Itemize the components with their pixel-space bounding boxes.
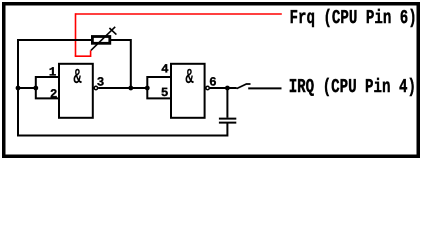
wire: gate 1 output (pin 3) to gate 2 inputs <box>98 87 147 89</box>
junction: gate1 input connector <box>33 86 38 91</box>
junction: gate2 input connector <box>145 86 150 91</box>
wire: red Frq net horizontal top segment <box>76 13 282 15</box>
svg-text:6: 6 <box>209 75 217 89</box>
wire: red Frq net bottom horizontal segment <box>75 55 91 57</box>
wire: left vertical feedback bus <box>17 39 19 137</box>
wire: output node down to capacitor C1 <box>226 87 228 118</box>
wire: left bus link to gate 1 inputs <box>17 87 36 89</box>
inverter bubble U1b output <box>206 86 209 89</box>
variable resistor R1 (trimmer) <box>91 27 116 51</box>
NAND gate U1a <box>59 64 93 118</box>
wire: vertical from resistor lead down to gate output node <box>130 39 132 88</box>
wire: switch to IRQ label <box>248 87 281 89</box>
svg-text:IRQ (CPU Pin 4): IRQ (CPU Pin 4) <box>289 76 416 98</box>
svg-text:1: 1 <box>49 66 57 80</box>
svg-text:Frq (CPU Pin 6): Frq (CPU Pin 6) <box>290 7 417 29</box>
wire: gate 2 output (pin 6) to switch <box>210 87 237 89</box>
svg-text:&: & <box>185 66 193 90</box>
wire: red Frq net vertical segment <box>75 13 77 56</box>
wire: gate 1 input connector joining pin 1 and pin 2 <box>36 77 59 98</box>
svg-text:4: 4 <box>161 63 169 77</box>
wire: resistor R1 right lead horizontal <box>111 39 131 41</box>
junction: capacitor / switch node <box>225 86 230 91</box>
capacitor C1 <box>219 119 236 123</box>
svg-text:&: & <box>73 66 81 90</box>
inverter bubble U1a output <box>94 86 97 89</box>
wire: gate 2 input connector joining pin 4 and pin 5 <box>147 77 171 98</box>
border frame <box>4 4 419 157</box>
junction: left bus / gate1 inputs <box>16 86 21 91</box>
junction: resistor branch on output net <box>128 86 133 91</box>
switch S1 lever <box>237 84 251 89</box>
wire: capacitor C1 bottom lead to feedback wire <box>226 124 228 137</box>
wire: top horizontal from left bus to resistor R1 <box>17 39 92 41</box>
wire: bottom feedback horizontal to capacitor <box>17 135 227 137</box>
svg-text:5: 5 <box>161 86 169 100</box>
NAND gate U1b <box>171 64 205 118</box>
wire: red Frq net stub up to resistor wiper <box>90 50 92 57</box>
svg-text:2: 2 <box>50 87 58 101</box>
svg-text:3: 3 <box>97 75 105 89</box>
